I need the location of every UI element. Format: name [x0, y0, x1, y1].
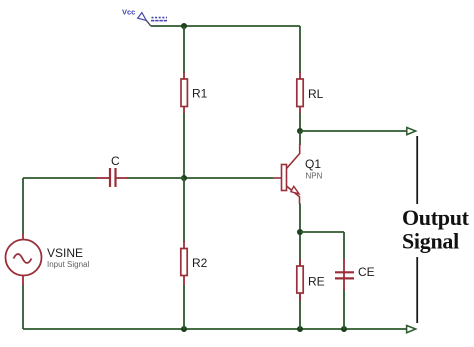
junction node emitter — [297, 229, 303, 235]
junction node top (R1/Vcc) — [181, 23, 187, 29]
svg-text:C: C — [111, 154, 120, 168]
svg-text:R2: R2 — [192, 256, 208, 270]
wire VSINE top — [22, 178, 24, 234]
svg-text:RE: RE — [308, 275, 325, 289]
wire emitter to CE branch — [300, 231, 344, 233]
junction node R2 bottom — [181, 326, 187, 332]
wire CE lower — [343, 291, 345, 330]
wire base — [184, 177, 273, 179]
capacitor CE — [335, 259, 375, 292]
svg-text:VSINE: VSINE — [47, 246, 83, 260]
svg-text:R1: R1 — [192, 87, 208, 101]
wire top rail — [151, 25, 300, 27]
resistor R2 — [181, 241, 208, 286]
junction node emitter bottom — [297, 326, 303, 332]
svg-text:Signal: Signal — [402, 229, 459, 254]
power terminal Vcc — [122, 8, 168, 27]
source VSINE — [6, 234, 90, 287]
terminal arrow bottom output — [407, 326, 416, 333]
svg-text:CE: CE — [358, 265, 375, 279]
svg-text:RL: RL — [308, 87, 324, 101]
wire input row left of C — [23, 177, 97, 179]
wire collector to output arrow — [300, 130, 407, 132]
svg-text:Q1: Q1 — [305, 157, 321, 171]
wire R1 lower to input node — [183, 113, 185, 178]
wire VSINE bottom — [22, 286, 24, 330]
transistor Q1 — [273, 144, 323, 204]
svg-text:Output: Output — [402, 205, 470, 230]
wire RE upper (red lead) — [299, 259, 301, 267]
resistor RL — [297, 73, 324, 114]
capacitor C — [97, 154, 128, 187]
output signal line lower segment — [416, 257, 418, 323]
junction node input (R1/R2/base) — [181, 175, 187, 181]
wire RL upper — [299, 26, 301, 73]
wire bottom rail — [23, 328, 407, 330]
wire CE upper — [343, 232, 345, 259]
wire emitter column — [299, 204, 301, 330]
svg-text:Vcc: Vcc — [122, 8, 135, 17]
wire R2 upper — [183, 178, 185, 242]
wire R1 upper — [183, 26, 185, 73]
wire collector node to Q1 — [299, 131, 301, 145]
svg-text:Input Signal: Input Signal — [47, 260, 89, 269]
wire R2 lower — [183, 285, 185, 329]
output signal line upper segment — [416, 136, 418, 204]
svg-text:NPN: NPN — [306, 172, 323, 181]
junction node collector — [297, 128, 303, 134]
resistor RE — [297, 232, 325, 301]
wire RL lower to collector node — [299, 113, 301, 131]
resistor R1 — [181, 73, 208, 114]
wire C to input node — [127, 177, 184, 179]
junction node CE bottom — [341, 326, 347, 332]
terminal arrow top output — [407, 128, 416, 135]
